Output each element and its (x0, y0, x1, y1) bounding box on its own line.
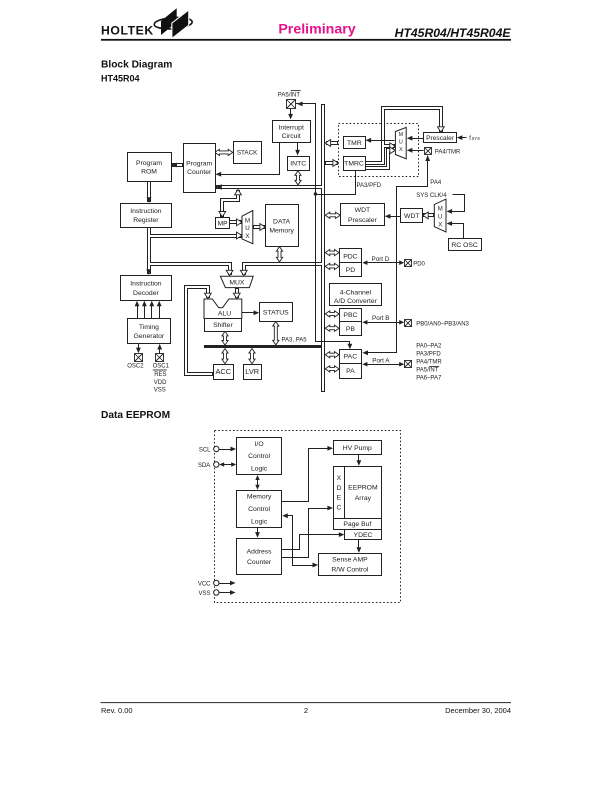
svg-text:M: M (438, 206, 443, 212)
svg-text:PA5/INT: PA5/INT (278, 92, 301, 98)
svg-text:PBC: PBC (343, 312, 357, 319)
svg-text:Decoder: Decoder (133, 290, 159, 297)
svg-text:Memory: Memory (269, 227, 294, 234)
svg-text:X: X (438, 223, 442, 229)
svg-text:STATUS: STATUS (263, 309, 289, 316)
svg-text:D: D (336, 485, 341, 492)
svg-text:PA6–PA7: PA6–PA7 (416, 376, 442, 382)
svg-text:ACC: ACC (215, 367, 231, 376)
svg-text:Prescaler: Prescaler (426, 135, 455, 142)
svg-text:U: U (245, 225, 249, 232)
svg-text:TMRC: TMRC (344, 161, 364, 168)
svg-text:MP: MP (218, 220, 228, 227)
svg-text:PD0: PD0 (413, 262, 425, 268)
svg-text:PA4: PA4 (430, 180, 442, 186)
svg-text:2: 2 (304, 706, 308, 715)
svg-text:HT45R04: HT45R04 (101, 74, 140, 84)
svg-text:MUX: MUX (229, 280, 245, 287)
svg-text:PD: PD (346, 267, 356, 274)
svg-text:STACK: STACK (237, 150, 258, 157)
svg-text:WDT: WDT (355, 207, 370, 214)
svg-text:Sense AMP: Sense AMP (332, 556, 368, 563)
svg-text:OSC2: OSC2 (127, 364, 144, 370)
svg-text:PA3/PFD: PA3/PFD (416, 352, 441, 358)
svg-text:RES: RES (154, 372, 166, 378)
svg-text:PA4/TMR: PA4/TMR (416, 360, 442, 366)
svg-text:Interrupt: Interrupt (279, 125, 304, 132)
svg-text:Port D: Port D (372, 256, 390, 263)
svg-text:Instruction: Instruction (130, 208, 162, 215)
svg-text:Register: Register (133, 217, 159, 224)
svg-text:SYS CLK/4: SYS CLK/4 (416, 193, 447, 199)
svg-text:Prescaler: Prescaler (348, 217, 377, 224)
svg-text:Address: Address (247, 548, 273, 555)
svg-text:PAC: PAC (344, 354, 358, 361)
svg-text:A/D Converter: A/D Converter (334, 298, 378, 305)
svg-text:Instruction: Instruction (130, 281, 162, 288)
svg-text:PA5/INT: PA5/INT (416, 368, 439, 374)
svg-text:PA3, PA5: PA3, PA5 (282, 337, 308, 343)
svg-text:Port A: Port A (372, 357, 390, 364)
svg-text:HOLTEK: HOLTEK (101, 23, 154, 37)
svg-text:YDEC: YDEC (354, 532, 373, 539)
svg-text:X: X (245, 233, 249, 240)
svg-text:TMR: TMR (347, 140, 362, 147)
svg-text:PB0/AN0–PB3/AN3: PB0/AN0–PB3/AN3 (416, 321, 469, 327)
svg-text:Array: Array (355, 495, 372, 502)
svg-text:Generator: Generator (134, 333, 165, 340)
svg-text:4-Channel: 4-Channel (340, 290, 372, 297)
svg-text:PA3/PFD: PA3/PFD (357, 183, 382, 189)
svg-text:LVR: LVR (245, 367, 259, 376)
svg-text:X: X (399, 147, 403, 153)
svg-text:VSS: VSS (154, 388, 166, 394)
svg-text:VDD: VDD (154, 380, 167, 386)
svg-text:Rev. 0.00: Rev. 0.00 (101, 706, 133, 715)
svg-text:PB: PB (346, 326, 356, 333)
svg-text:Logic: Logic (251, 466, 268, 473)
svg-text:I/O: I/O (255, 441, 264, 448)
svg-text:E: E (337, 495, 342, 502)
svg-text:ROM: ROM (141, 169, 157, 176)
svg-text:C: C (336, 505, 341, 512)
svg-text:M: M (245, 217, 250, 224)
svg-text:Control: Control (248, 453, 270, 460)
svg-text:SYS: SYS (472, 136, 481, 141)
svg-text:Program: Program (136, 160, 162, 167)
svg-text:SCL: SCL (199, 447, 211, 453)
svg-text:R/W Control: R/W Control (331, 567, 369, 574)
svg-text:PA0–PA2: PA0–PA2 (416, 344, 442, 350)
svg-text:Logic: Logic (251, 519, 268, 526)
svg-text:ALU: ALU (218, 311, 231, 318)
svg-text:PA: PA (346, 368, 355, 375)
svg-text:Page Buf: Page Buf (343, 521, 371, 528)
svg-text:SDA: SDA (198, 463, 210, 469)
svg-text:HV Pump: HV Pump (343, 445, 372, 452)
svg-text:Port B: Port B (372, 315, 390, 322)
svg-text:December 30, 2004: December 30, 2004 (445, 706, 511, 715)
svg-text:U: U (438, 215, 442, 221)
svg-text:Timing: Timing (139, 324, 159, 331)
svg-text:Data EEPROM: Data EEPROM (101, 410, 170, 421)
svg-text:OSC1: OSC1 (153, 364, 170, 370)
svg-text:Circuit: Circuit (282, 133, 301, 140)
svg-text:Counter: Counter (187, 169, 212, 176)
svg-text:VCC: VCC (198, 582, 211, 588)
svg-text:Shifter: Shifter (213, 322, 233, 329)
svg-text:PA4/TMR: PA4/TMR (435, 149, 461, 155)
svg-text:U: U (399, 140, 403, 146)
svg-text:Preliminary: Preliminary (278, 21, 355, 37)
svg-text:M: M (399, 132, 403, 138)
svg-text:Program: Program (186, 161, 212, 168)
svg-text:X: X (337, 475, 342, 482)
svg-text:Block Diagram: Block Diagram (101, 60, 172, 71)
svg-text:PDC: PDC (343, 254, 357, 261)
svg-text:Memory: Memory (247, 494, 272, 501)
svg-text:RC OSC: RC OSC (451, 242, 478, 249)
svg-text:WDT: WDT (404, 213, 419, 220)
svg-text:HT45R04/HT45R04E: HT45R04/HT45R04E (395, 26, 512, 40)
svg-text:VSS: VSS (198, 591, 210, 597)
svg-text:INTC: INTC (290, 161, 306, 168)
svg-text:DATA: DATA (273, 218, 291, 225)
svg-text:Control: Control (248, 506, 270, 513)
svg-text:Counter: Counter (247, 559, 272, 566)
svg-text:EEPROM: EEPROM (348, 485, 378, 492)
